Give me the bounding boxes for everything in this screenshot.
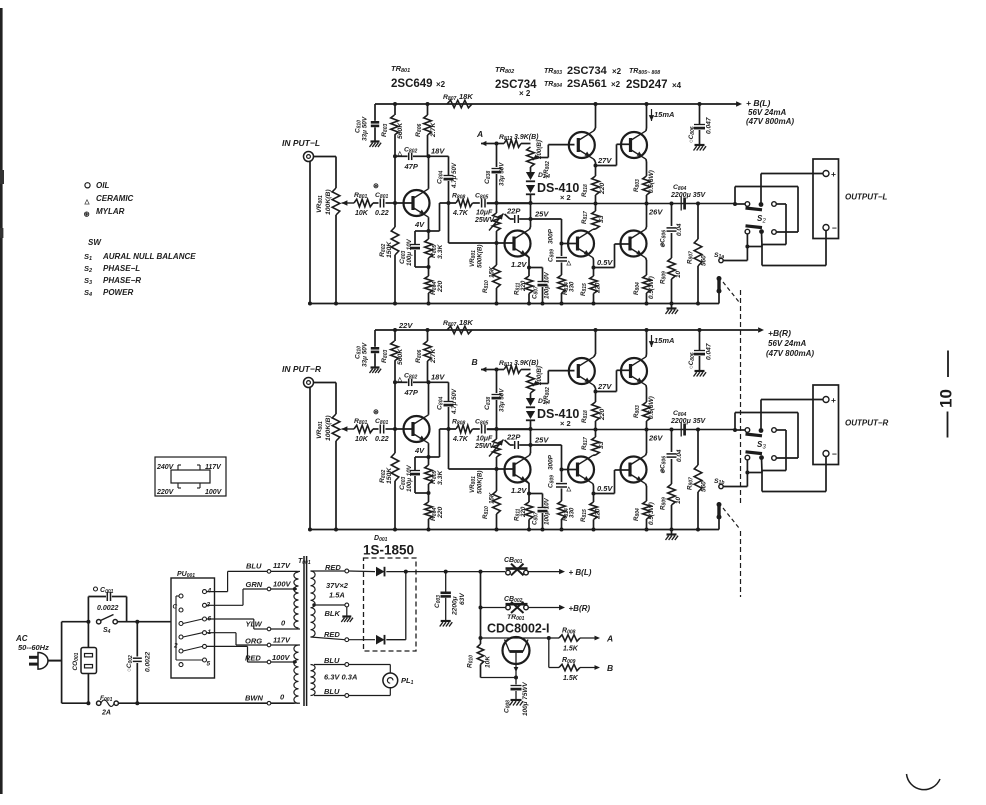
svg-text:27V: 27V	[597, 156, 612, 165]
capacitor C806b 0.04	[670, 202, 674, 206]
svg-text:330: 330	[569, 507, 576, 518]
switch S3 frame wires (R)	[734, 413, 736, 431]
svg-text:2200μ 35V: 2200μ 35V	[670, 192, 707, 199]
svg-text:10μF: 10μF	[476, 436, 493, 443]
svg-text:4.7K: 4.7K	[452, 210, 469, 217]
transistor TR801 Q1	[395, 202, 413, 204]
capacitor C003 2200u 63V	[445, 572, 447, 592]
wire input shield	[309, 162, 311, 304]
ground at C810	[371, 140, 380, 142]
svg-text:100V: 100V	[272, 653, 291, 662]
svg-text:56V 24mA: 56V 24mA	[748, 108, 786, 117]
resistor R814 330	[558, 275, 566, 293]
svg-text:DS-410: DS-410	[537, 407, 579, 421]
svg-text:OIL: OIL	[96, 181, 109, 190]
svg-text:C804: C804	[673, 410, 686, 418]
svg-text:R809: R809	[660, 497, 668, 510]
svg-text:0.5V: 0.5V	[597, 484, 613, 493]
svg-text:C: C	[173, 604, 178, 611]
capacitor C804b 2200u 35V (R)	[680, 423, 682, 437]
svg-text:POWER: POWER	[103, 288, 133, 297]
svg-text:10K: 10K	[485, 655, 492, 668]
svg-text:220: 220	[595, 282, 602, 294]
capacitor C002 0.0022	[136, 622, 138, 657]
capacitor C801 0.22	[373, 202, 379, 204]
svg-text:18K: 18K	[459, 92, 473, 101]
transformer winding feed wires	[207, 591, 228, 593]
resistor R009 1.5K to B	[548, 638, 550, 668]
capacitor C806 0.047	[698, 102, 702, 106]
svg-text:R806: R806	[415, 350, 423, 363]
diode D2	[376, 635, 385, 645]
svg-text:2A: 2A	[101, 710, 111, 717]
svg-text:0.5(3W): 0.5(3W)	[648, 170, 655, 193]
svg-text:R807: R807	[443, 94, 456, 102]
svg-text:R804: R804	[633, 508, 641, 521]
secondary tap RED lower	[311, 637, 345, 640]
svg-text:⊛: ⊛	[373, 183, 379, 190]
switch S2 contacts	[745, 202, 750, 207]
resistor R818 220	[592, 176, 600, 195]
capacitor C806 0.047 (R)	[698, 328, 702, 332]
transistor TR802 Q2	[505, 231, 531, 257]
output terminal box OUTPUT-L	[813, 159, 839, 239]
svg-text:PU001: PU001	[177, 571, 195, 579]
resistor R808 4.7K	[456, 199, 473, 207]
svg-text:DS-410: DS-410	[537, 181, 579, 195]
resistor R812 3.9K(B) (R)	[497, 369, 505, 371]
ground at C810 (R)	[371, 366, 380, 368]
svg-text:10: 10	[675, 496, 682, 504]
resistor R809 10 (R)	[668, 484, 676, 505]
svg-text:C804: C804	[437, 171, 445, 184]
svg-text:18V: 18V	[431, 147, 445, 156]
capacitor C804 4.7u 50V	[429, 155, 449, 157]
svg-text:R801: R801	[354, 192, 367, 200]
svg-text:1S-1850: 1S-1850	[363, 543, 414, 558]
resistor R805 3.3K	[428, 231, 430, 239]
svg-text:0.047: 0.047	[706, 117, 713, 134]
capacitor C809 300P	[556, 257, 567, 259]
resistor R811 220	[526, 255, 529, 258]
potentiometer VR801b 500K(B) feedback (R)	[493, 439, 501, 457]
svg-text:CERAMIC: CERAMIC	[96, 194, 134, 203]
svg-text:22V: 22V	[398, 321, 413, 330]
capacitor C805 10uF 25WV	[473, 202, 480, 204]
svg-text:BWN: BWN	[245, 694, 263, 703]
svg-text:MYLAR: MYLAR	[96, 207, 125, 216]
resistor R806 2.7K (R)	[427, 330, 429, 341]
transistor TR806 Q6 output	[621, 231, 647, 257]
svg-text:S4: S4	[103, 627, 111, 635]
diode D3 (R)	[530, 393, 532, 398]
selector tick marks	[177, 465, 179, 470]
svg-text:2.7K: 2.7K	[430, 348, 437, 364]
svg-text:BLU: BLU	[246, 562, 262, 571]
transistor TR805 Q5 output (R)	[621, 358, 647, 384]
svg-text:26V: 26V	[648, 434, 663, 443]
svg-text:63V: 63V	[459, 593, 466, 605]
svg-text:R010: R010	[467, 655, 475, 668]
svg-text:R810: R810	[482, 280, 490, 293]
resistor R817 33 (R)	[595, 430, 597, 438]
svg-text:100V: 100V	[273, 580, 292, 589]
svg-text:4.7μ 50V: 4.7μ 50V	[451, 162, 458, 189]
svg-text:25V: 25V	[534, 210, 549, 219]
circuit breaker CB002	[480, 572, 482, 638]
svg-text:+ B(L): + B(L)	[746, 98, 770, 108]
svg-text:560K: 560K	[397, 122, 404, 139]
svg-text:CDC8002-I: CDC8002-I	[487, 622, 550, 636]
svg-text:CO001: CO001	[72, 652, 80, 670]
svg-text:C802: C802	[404, 373, 417, 381]
wire Q2 base	[449, 242, 515, 244]
svg-text:0.5V: 0.5V	[597, 258, 613, 267]
resistor R804b 0.5(3W) (R)	[643, 501, 651, 519]
capacitor C804 4.7u 50V (R)	[429, 381, 449, 383]
wire emitter to R808 (R)	[429, 456, 440, 458]
svg-text:100μ 10V: 100μ 10V	[544, 271, 551, 299]
svg-text:18V: 18V	[431, 373, 445, 382]
svg-text:4V: 4V	[414, 446, 425, 455]
svg-text:56V 24mA: 56V 24mA	[768, 339, 806, 348]
ground channel	[671, 304, 673, 309]
resistor R811 220 (R)	[526, 481, 529, 484]
capacitor C802 47P	[395, 155, 408, 157]
transistor TR802 Q2 (R)	[505, 457, 531, 483]
svg-text:R807: R807	[687, 251, 695, 264]
potentiometer VR801 100K(B) (R)	[332, 414, 340, 441]
svg-text:0.22: 0.22	[375, 210, 389, 217]
svg-text:○C806: ○C806	[688, 126, 696, 143]
channel separator dashed line	[740, 290, 742, 505]
svg-text:×2: ×2	[612, 67, 622, 76]
wire rail to S2	[735, 203, 745, 205]
svg-text:C805: C805	[475, 419, 488, 427]
svg-text:RED: RED	[324, 630, 340, 639]
svg-text:220V: 220V	[156, 489, 175, 496]
svg-text:C807: C807	[532, 512, 540, 525]
svg-text:50--60Hz: 50--60Hz	[18, 643, 49, 652]
svg-text:D3,4: D3,4	[538, 172, 550, 180]
node bias bottom	[529, 201, 533, 205]
svg-text:⊛C806: ⊛C806	[660, 456, 668, 474]
svg-text:220: 220	[437, 280, 444, 293]
svg-text:△: △	[84, 199, 91, 206]
svg-text:VR801: VR801	[316, 421, 324, 439]
svg-text:15K: 15K	[489, 492, 496, 504]
AC plug	[38, 653, 48, 670]
resistor R803 560K (R)	[391, 341, 399, 361]
svg-text:0.047: 0.047	[706, 343, 713, 360]
svg-text:2SC734: 2SC734	[567, 65, 608, 77]
diode D4	[526, 185, 535, 193]
capacitor C807 100u 10V	[529, 267, 543, 269]
svg-text:47P: 47P	[404, 388, 419, 397]
svg-text:×2: ×2	[611, 80, 621, 89]
wire bottom ground rail (R)	[308, 529, 719, 531]
connector block PU001	[171, 578, 215, 678]
pilot lamp PL1	[383, 673, 398, 688]
svg-text:BLK: BLK	[325, 609, 341, 618]
svg-text:C003: C003	[434, 595, 442, 608]
svg-text:B: B	[472, 357, 478, 367]
svg-text:R817: R817	[581, 437, 589, 450]
resistor R807b 560	[696, 202, 700, 206]
wire Q4 base (R)	[562, 469, 578, 471]
capacitor C809 300P (R)	[556, 483, 567, 485]
svg-text:10μF: 10μF	[476, 210, 493, 217]
svg-text:0.04: 0.04	[676, 449, 683, 462]
diode D1	[376, 567, 385, 577]
dashed link S1a	[723, 282, 739, 302]
svg-text:100μ 10V: 100μ 10V	[406, 464, 413, 492]
svg-text:TR804: TR804	[544, 81, 562, 89]
svg-text:⊛: ⊛	[373, 409, 379, 416]
svg-text:25V: 25V	[534, 436, 549, 445]
switch S2 frame wires	[734, 187, 736, 205]
svg-text:R807: R807	[443, 320, 456, 328]
svg-text:100K(B): 100K(B)	[325, 415, 332, 441]
signal rail (R)	[487, 429, 735, 431]
resistor R804 220 (R)	[428, 493, 430, 502]
svg-text:B: B	[607, 663, 613, 673]
wire 25V node to Q4 base	[531, 218, 562, 220]
svg-text:BLU: BLU	[324, 656, 340, 665]
wire primary taps	[297, 570, 300, 572]
resistor R803b 0.5(3W)	[643, 176, 651, 195]
svg-text:C807: C807	[532, 286, 540, 299]
svg-text:R808: R808	[452, 419, 465, 427]
svg-text:33μ 50V: 33μ 50V	[362, 342, 369, 367]
svg-text:C801: C801	[375, 192, 388, 200]
wiper to driver base (R)	[538, 383, 548, 385]
svg-text:2200μ 35V: 2200μ 35V	[670, 418, 707, 425]
capacitor C801 0.22 (R)	[373, 428, 379, 430]
svg-text:47P: 47P	[404, 162, 419, 171]
svg-text:+B(R): +B(R)	[768, 328, 791, 338]
svg-text:500K(B): 500K(B)	[477, 471, 484, 494]
svg-text:TR803: TR803	[544, 68, 562, 76]
wire bottom ground rail	[308, 303, 719, 305]
wire emitter to R808	[429, 230, 440, 232]
svg-text:R806: R806	[415, 124, 423, 137]
wire top supply rail (R)	[375, 329, 758, 331]
svg-text:R807: R807	[687, 477, 695, 490]
wire Q2 base (R)	[449, 468, 515, 470]
resistor R807b 560 (R)	[696, 428, 700, 432]
dashed link S1b (R)	[723, 508, 739, 528]
svg-text:SW: SW	[88, 238, 102, 247]
resistor R803b 0.5(3W) (R)	[643, 402, 651, 421]
left page edge scan mark	[0, 8, 3, 794]
capacitor C802 47P (R)	[395, 381, 408, 383]
resistor R815 220	[590, 276, 598, 294]
svg-text:C801: C801	[375, 418, 388, 426]
svg-text:C802: C802	[404, 147, 417, 155]
svg-text:1.2V: 1.2V	[511, 486, 527, 495]
svg-text:R801: R801	[354, 418, 367, 426]
svg-text:100μ 10V: 100μ 10V	[406, 238, 413, 266]
svg-text:117V: 117V	[273, 636, 291, 645]
svg-text:0.5(3W): 0.5(3W)	[648, 276, 655, 299]
svg-text:560: 560	[701, 481, 708, 492]
svg-text:OUTPUT−L: OUTPUT−L	[845, 193, 888, 202]
capacitor C838 33u 50V	[496, 144, 498, 168]
transistor TR803 Q3 driver (R)	[569, 358, 595, 384]
wire plug to splits	[49, 660, 62, 662]
svg-text:220: 220	[595, 508, 602, 520]
svg-text:240V: 240V	[156, 464, 175, 471]
resistor R810 15K (R)	[496, 469, 498, 491]
svg-text:△: △	[397, 376, 403, 383]
svg-text:C809: C809	[548, 475, 556, 488]
svg-text:+B(R): +B(R)	[569, 604, 591, 613]
svg-text:0.0022: 0.0022	[97, 605, 119, 612]
svg-text:RED: RED	[245, 654, 261, 663]
svg-text:C001: C001	[100, 587, 114, 595]
svg-text:2200μ: 2200μ	[452, 596, 459, 616]
svg-text:300P: 300P	[548, 454, 555, 470]
signal rail	[487, 203, 735, 205]
svg-text:PHASE−L: PHASE−L	[103, 264, 140, 273]
svg-text:D3,4: D3,4	[538, 398, 550, 406]
resistor R817 33	[595, 204, 597, 212]
svg-text:R803: R803	[633, 405, 641, 418]
wire to +B(R)	[528, 607, 560, 609]
potentiometer VR802 200(B)	[527, 147, 535, 167]
wire to +B(L)	[527, 571, 560, 573]
potentiometer VR802 200(B) (R)	[527, 373, 535, 393]
svg-text:C804: C804	[673, 184, 686, 192]
svg-text:R810: R810	[482, 506, 490, 519]
svg-text:R009: R009	[562, 657, 576, 665]
svg-text:560K: 560K	[397, 348, 404, 365]
svg-text:C809: C809	[548, 249, 556, 262]
capacitor 22P (R)	[505, 440, 511, 445]
svg-text:R812: R812	[499, 134, 512, 142]
wire S2 pole2 node	[761, 232, 764, 247]
wire Q3 emitter to Q5 base	[596, 165, 617, 167]
transformer primary winding	[294, 572, 299, 628]
svg-text:○C002: ○C002	[126, 655, 134, 672]
svg-text:37V×2: 37V×2	[326, 581, 349, 590]
resistor R803 560K	[391, 115, 399, 135]
resistor R809 10	[668, 258, 676, 279]
wire jack to volume pot	[314, 156, 337, 158]
svg-text:18K: 18K	[459, 318, 473, 327]
potentiometer VR801 100K(B)	[332, 188, 340, 215]
svg-text:× 2: × 2	[560, 193, 571, 202]
transistor TR806 Q6 output (R)	[621, 457, 647, 483]
svg-text:△: △	[397, 150, 403, 157]
resistor R010 10K	[479, 636, 483, 640]
resistor R808 4.7K (R)	[456, 425, 473, 433]
resistor R807 18K (rail)	[447, 100, 472, 108]
svg-text:R818: R818	[581, 410, 589, 423]
svg-text:6.3V 0.3A: 6.3V 0.3A	[324, 673, 357, 682]
wire R010 to emitter	[481, 677, 517, 679]
svg-text:10K: 10K	[355, 210, 369, 217]
svg-text:⊛C806: ⊛C806	[660, 230, 668, 248]
svg-text:F001: F001	[100, 695, 113, 703]
resistor R805 3.3K (R)	[428, 457, 430, 465]
svg-text:2: 2	[762, 219, 767, 225]
wire Q4 emitter to Q6 base	[594, 267, 615, 269]
svg-text:OUTPUT−R: OUTPUT−R	[845, 419, 889, 428]
svg-text:1.5A: 1.5A	[329, 591, 345, 600]
svg-text:26V: 26V	[648, 208, 663, 217]
svg-text:(47V 800mA): (47V 800mA)	[746, 117, 794, 126]
svg-text:33: 33	[598, 215, 605, 223]
svg-text:33μ 50V: 33μ 50V	[362, 116, 369, 141]
resistor R802 150K	[391, 227, 399, 255]
svg-text:C804: C804	[437, 397, 445, 410]
svg-text:33: 33	[598, 441, 605, 449]
svg-text:IN PUT−R: IN PUT−R	[282, 364, 322, 374]
svg-text:CB002: CB002	[504, 596, 523, 604]
node Q1 emitter (R)	[427, 455, 431, 459]
svg-text:A: A	[606, 634, 613, 644]
svg-text:0.5(3W): 0.5(3W)	[648, 502, 655, 525]
fuse F001 2A	[97, 701, 101, 705]
resistor R806 2.7K	[427, 104, 429, 115]
wire to transformer primary bottom	[118, 702, 294, 704]
resistor R804b 0.5(3W)	[643, 275, 651, 293]
wire S4 to PU001	[137, 621, 171, 623]
wire rail to S3 (R)	[735, 429, 745, 431]
node bias bottom (R)	[529, 427, 533, 431]
svg-text:R808: R808	[452, 193, 465, 201]
+B(L) supply arrow	[736, 101, 742, 106]
svg-text:4.7μ 50V: 4.7μ 50V	[451, 388, 458, 415]
svg-text:2SC734: 2SC734	[495, 79, 537, 91]
capacitor C838 33u 50V (R)	[496, 370, 498, 394]
resistor R814 330 (R)	[558, 501, 566, 519]
svg-text:R008: R008	[562, 628, 576, 636]
svg-text:TR805~ 808: TR805~ 808	[629, 68, 660, 76]
svg-text:33μ 50V: 33μ 50V	[499, 388, 506, 412]
svg-text:AURAL NULL BALANCE: AURAL NULL BALANCE	[102, 252, 196, 261]
resistor R801 10K (R)	[354, 425, 373, 433]
svg-text:150K: 150K	[386, 241, 393, 258]
resistor R815 220 (R)	[590, 502, 598, 520]
+B(R) supply arrow	[758, 327, 764, 332]
wire S3 pole2 node (R)	[761, 458, 764, 473]
capacitor C803 100u 10V	[415, 230, 429, 232]
svg-text:3.9K(B): 3.9K(B)	[514, 360, 539, 367]
svg-text:220: 220	[520, 280, 527, 292]
potentiometer VR801b 500K(B) feedback	[493, 213, 501, 231]
svg-text:ORG: ORG	[245, 637, 262, 646]
output terminal box OUTPUT-R (R)	[813, 385, 839, 465]
switch S4	[97, 620, 101, 624]
svg-text:+: +	[831, 395, 836, 405]
wire Q4 base	[562, 243, 578, 245]
resistor R810 15K	[496, 243, 498, 265]
svg-text:×4: ×4	[672, 81, 682, 90]
svg-text:150K: 150K	[386, 467, 393, 484]
wire output - return (R)	[762, 491, 826, 493]
svg-text:C838: C838	[484, 397, 492, 410]
svg-text:C805: C805	[475, 193, 488, 201]
svg-text:100μ 10V: 100μ 10V	[544, 497, 551, 525]
resistor R818 220 (R)	[592, 402, 600, 421]
svg-text:× 2: × 2	[560, 419, 571, 428]
svg-text:−: −	[832, 449, 837, 459]
svg-text:R815: R815	[580, 283, 588, 296]
wire rectifier output	[405, 572, 407, 640]
